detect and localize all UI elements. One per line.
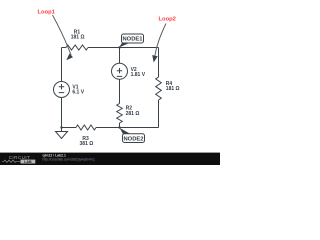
footer bar <box>0 153 220 165</box>
wire middle branch middle <box>119 79 121 103</box>
svg-text:NODE2: NODE2 <box>124 136 144 142</box>
svg-text:181 Ω: 181 Ω <box>71 35 85 41</box>
svg-text:181 Ω: 181 Ω <box>166 86 180 92</box>
wire right branch lower <box>158 100 160 128</box>
wire left branch upper <box>61 48 63 82</box>
resistor R1 <box>66 29 88 50</box>
svg-text:http://circuitlab.com/c682py4a: http://circuitlab.com/c682py4a3m47q <box>43 157 95 161</box>
wire top-left segment <box>62 47 67 49</box>
svg-text:281 Ω: 281 Ω <box>126 111 140 117</box>
wire bottom-left segment <box>62 127 77 129</box>
resistor R3 <box>76 125 96 147</box>
svg-text:Loop2: Loop2 <box>159 16 176 22</box>
wire bottom-right segment <box>96 127 159 129</box>
voltage source V2 <box>112 63 146 79</box>
Loop1 annotation <box>38 9 74 60</box>
Loop2 annotation <box>152 16 176 62</box>
resistor R2 <box>117 104 140 124</box>
svg-text:Loop1: Loop1 <box>38 9 56 15</box>
svg-text:NODE1: NODE1 <box>123 37 144 43</box>
footer CircuitLab logo <box>2 155 35 164</box>
svg-text:6.1 V: 6.1 V <box>72 90 84 96</box>
wire right branch upper <box>158 48 160 78</box>
svg-text:1.81 V: 1.81 V <box>131 72 146 78</box>
wire middle branch lower <box>119 123 121 128</box>
svg-text:LAB: LAB <box>24 160 32 164</box>
node C junction dot bottom-middle <box>118 126 120 128</box>
node B junction dot top-middle <box>118 46 120 48</box>
ground <box>56 128 68 139</box>
wire middle branch upper <box>119 48 121 64</box>
resistor R4 <box>156 77 180 100</box>
node A junction dot bottom-left <box>60 126 62 128</box>
wire top-right segment <box>88 47 159 49</box>
node NODE1 callout <box>119 34 144 48</box>
svg-text:381 Ω: 381 Ω <box>80 141 94 147</box>
node NODE2 callout <box>120 128 145 143</box>
wire left branch lower <box>61 98 63 128</box>
voltage source V1 <box>54 82 85 98</box>
